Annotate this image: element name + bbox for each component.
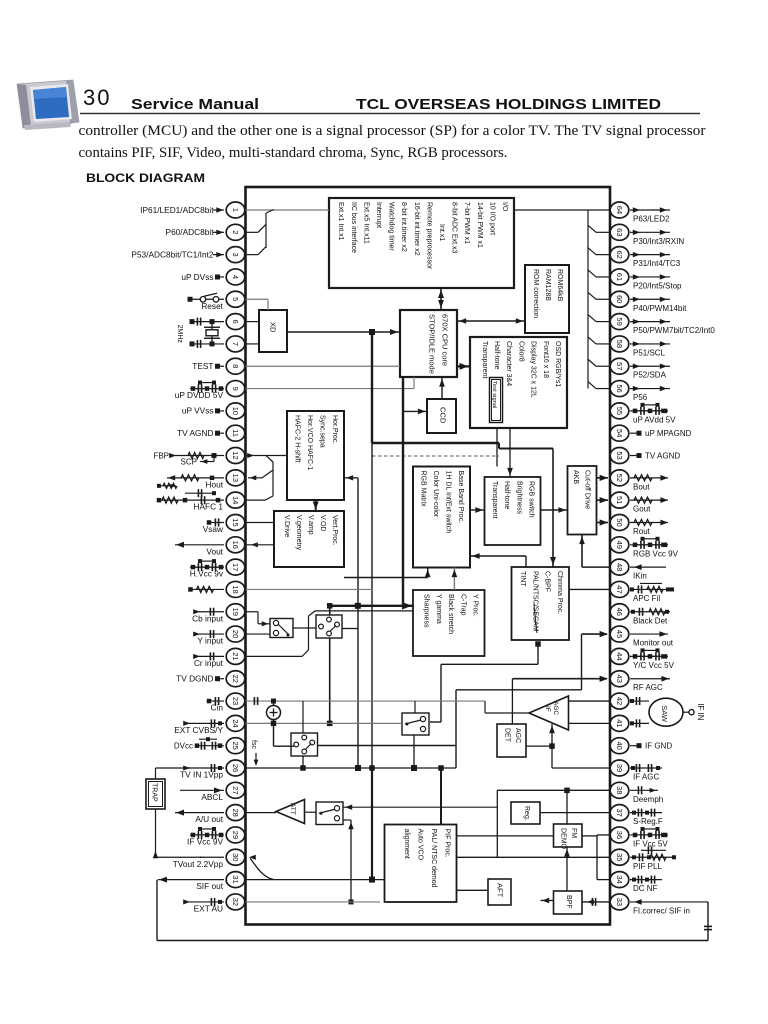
pin 46 external components	[630, 608, 670, 616]
svg-text:11: 11	[231, 429, 240, 437]
pin 21 circle	[226, 648, 245, 664]
amplifier IF AGC	[529, 696, 569, 730]
svg-text:IIC bus interface: IIC bus interface	[350, 202, 357, 253]
pin 9 circle	[226, 381, 245, 397]
pin 45 external components	[630, 631, 668, 637]
wire TRAP bottom	[153, 809, 202, 858]
svg-text:30: 30	[231, 853, 240, 861]
pin 31 circle	[226, 872, 245, 888]
pin 2 circle	[226, 224, 245, 240]
svg-text:Hor.VCO HAFC-1: Hor.VCO HAFC-1	[306, 415, 313, 470]
svg-text:P60/ADC8bit: P60/ADC8bit	[166, 227, 215, 237]
svg-text:DEMO: DEMO	[560, 828, 567, 850]
svg-text:Int.x1: Int.x1	[438, 224, 445, 241]
block Reg	[511, 802, 540, 824]
pin 43 external components	[630, 676, 670, 682]
svg-text:EXT AU: EXT AU	[194, 903, 223, 913]
wire AGC junction to pin39	[552, 746, 610, 768]
block OSD	[470, 337, 567, 428]
block Chroma Proc	[512, 567, 570, 640]
block U1 I/O and peripherals	[329, 198, 514, 288]
svg-text:TEST: TEST	[192, 361, 213, 371]
pin 3 circle	[226, 247, 245, 263]
pin 3 external components	[213, 252, 224, 257]
svg-text:SCP: SCP	[181, 458, 197, 467]
svg-text:46: 46	[615, 608, 624, 616]
pin 4 external components	[215, 274, 224, 279]
svg-text:7-bit PWM x1: 7-bit PWM x1	[463, 202, 470, 244]
pin 10 external components	[215, 408, 224, 413]
wire SW5 to pin32 line	[343, 820, 354, 904]
pin 56 circle	[610, 381, 629, 397]
pin 61 external components	[630, 274, 670, 279]
pin 34 external components	[630, 876, 662, 884]
pin 11 circle	[226, 425, 245, 441]
svg-text:17: 17	[231, 563, 240, 571]
wire SW5 input line	[343, 805, 497, 810]
pin 55 circle	[610, 403, 629, 419]
pin 9 external components	[190, 381, 224, 393]
svg-text:OSD RGB/Ys1: OSD RGB/Ys1	[554, 341, 561, 387]
svg-text:Vert.Proc.: Vert.Proc.	[331, 515, 338, 546]
wire CCD to CPU	[439, 377, 445, 399]
svg-text:Chroma Proc.: Chroma Proc.	[556, 571, 563, 614]
pin 35 external components	[630, 846, 676, 861]
pin 20 circle	[226, 626, 245, 642]
wire pin24 EXT CVBS	[246, 722, 403, 724]
svg-text:7: 7	[231, 342, 240, 346]
pin 14 external components	[157, 489, 224, 504]
svg-text:48: 48	[615, 563, 624, 571]
svg-text:FI.correc/ SIF in: FI.correc/ SIF in	[633, 906, 690, 915]
svg-text:V.Drive: V.Drive	[283, 515, 290, 537]
block Y Proc	[413, 590, 485, 656]
svg-text:Deemph: Deemph	[633, 795, 663, 804]
svg-text:670X CPU core: 670X CPU core	[441, 314, 450, 366]
svg-text:SAW: SAW	[660, 705, 669, 723]
wire PIF to FM demo	[457, 835, 554, 837]
svg-text:37: 37	[615, 808, 624, 816]
switch SW2 Y/C select	[316, 615, 342, 638]
svg-text:38: 38	[615, 786, 624, 794]
pin 23 external components	[207, 697, 224, 705]
wire left bus vertical	[266, 210, 274, 249]
wire pin48 IKin to AKB	[579, 535, 610, 568]
svg-text:Cin: Cin	[211, 703, 224, 713]
svg-text:uP DVDD 5V: uP DVDD 5V	[175, 390, 224, 400]
svg-text:AGC: AGC	[552, 701, 559, 715]
wire adder vertical	[271, 701, 277, 726]
TV icon	[17, 80, 79, 130]
svg-text:53: 53	[615, 451, 624, 459]
svg-text:FM: FM	[570, 828, 577, 838]
wire SW4 top tap	[414, 701, 416, 713]
wire XD to CPU	[287, 329, 400, 335]
pin 16 external components	[175, 542, 224, 548]
svg-text:EXT CVBS/Y: EXT CVBS/Y	[174, 725, 223, 735]
svg-text:63: 63	[615, 228, 624, 236]
pin 11 external components	[215, 431, 224, 436]
wire pin2 bus merge	[246, 224, 267, 232]
svg-text:24: 24	[231, 719, 240, 727]
pin 33 circle	[610, 894, 629, 910]
svg-text:uP AVdd 5V: uP AVdd 5V	[633, 415, 676, 424]
wire bus to chroma	[550, 449, 556, 568]
svg-text:P63/LED2: P63/LED2	[633, 215, 670, 224]
svg-text:FBP: FBP	[153, 452, 169, 461]
wire cutoff to pin 50	[597, 519, 609, 525]
svg-text:34: 34	[615, 875, 624, 883]
wire monitor out pin45	[582, 631, 609, 637]
svg-text:SIF out: SIF out	[196, 881, 223, 891]
pin 47 circle	[610, 581, 629, 597]
svg-text:8: 8	[231, 364, 240, 368]
svg-text:25: 25	[231, 742, 240, 750]
svg-text:10: 10	[231, 407, 240, 415]
pin 21 external components	[193, 652, 224, 660]
pin 45 circle	[610, 626, 629, 642]
svg-text:APC Fil: APC Fil	[633, 594, 660, 603]
pin 32 circle	[226, 894, 245, 910]
svg-text:35: 35	[615, 853, 624, 861]
wire ATT to SW5	[305, 811, 317, 813]
svg-text:RGB switch: RGB switch	[528, 481, 535, 518]
header rule	[80, 113, 700, 115]
pin 18 circle	[226, 581, 245, 597]
pin 35 circle	[610, 849, 629, 865]
block Vert Proc	[274, 511, 344, 567]
svg-text:Ext.x5 Int.x11: Ext.x5 Int.x11	[362, 202, 369, 244]
pin 28 circle	[226, 805, 245, 821]
svg-text:36: 36	[615, 831, 624, 839]
pin 20 external components	[193, 630, 224, 638]
pin 63 external components	[630, 230, 670, 235]
pin 58 circle	[610, 336, 629, 352]
pin 49 circle	[610, 537, 629, 553]
svg-text:AFT: AFT	[496, 883, 505, 898]
pin 30 circle	[226, 849, 245, 865]
svg-text:ROM64kB: ROM64kB	[556, 269, 563, 302]
svg-text:uP VVss: uP VVss	[182, 406, 214, 416]
svg-text:IF: IF	[544, 706, 551, 712]
pin 10 circle	[226, 403, 245, 419]
svg-text:XD: XD	[269, 322, 278, 333]
svg-text:Y/C Vcc 5V: Y/C Vcc 5V	[633, 661, 675, 670]
pin 33 external components	[630, 899, 708, 905]
svg-text:23: 23	[231, 697, 240, 705]
pin 31 external components	[158, 877, 224, 883]
wire chroma bottom to SW4	[430, 641, 541, 722]
wire pin1 to IO block	[246, 209, 330, 211]
wire YProc to BBP	[452, 568, 458, 591]
svg-text:V.OD: V.OD	[319, 515, 326, 531]
svg-text:I/O: I/O	[501, 202, 508, 212]
svg-text:4: 4	[231, 275, 240, 279]
svg-text:3: 3	[231, 253, 240, 257]
wire pin32 EXT AU line	[246, 901, 381, 903]
svg-text:HAFC-2 H-shift: HAFC-2 H-shift	[294, 415, 301, 463]
svg-text:P20/Int5/Stop: P20/Int5/Stop	[633, 281, 682, 290]
svg-text:PIF PLL: PIF PLL	[633, 862, 662, 871]
svg-text:PIF Proc.: PIF Proc.	[444, 829, 451, 858]
pin 42 circle	[610, 693, 629, 709]
pin 50 circle	[610, 514, 629, 530]
svg-text:H.Vcc 9v: H.Vcc 9v	[190, 569, 224, 579]
wire bus x372 lower	[371, 443, 373, 768]
svg-text:HAFC 1: HAFC 1	[193, 502, 223, 512]
svg-text:BLOCK DIAGRAM: BLOCK DIAGRAM	[86, 171, 205, 185]
svg-text:AKB: AKB	[572, 470, 579, 484]
svg-text:Font16 x 18: Font16 x 18	[542, 341, 549, 378]
pin 12 external components	[169, 453, 224, 464]
switch SW4 video select	[402, 713, 429, 735]
svg-text:TRAP: TRAP	[151, 783, 158, 802]
pin 17 circle	[226, 559, 245, 575]
wire AGC to IF amp	[526, 724, 555, 749]
svg-text:RGB Matrix: RGB Matrix	[420, 471, 427, 508]
svg-text:Cb input: Cb input	[192, 613, 224, 623]
wire adder to SW3	[274, 723, 295, 746]
wire SW2 up to bus	[327, 603, 333, 615]
pin 6 external components	[176, 318, 224, 348]
adder node	[267, 706, 281, 720]
svg-text:P53/ADC8bit/TC1/Int2: P53/ADC8bit/TC1/Int2	[131, 249, 213, 259]
wire right bus with diagonals	[588, 210, 610, 389]
pin 29 external components	[190, 827, 224, 839]
svg-text:DC NF: DC NF	[633, 884, 658, 893]
svg-text:P51/SCL: P51/SCL	[633, 348, 666, 357]
wire pin31 SIF line	[246, 877, 385, 883]
wire bus dashed	[372, 455, 499, 457]
wire CPU bus down	[402, 377, 413, 610]
wire reg to pin37	[540, 812, 610, 814]
wire pin19 Cb	[246, 612, 271, 627]
wire pin28 to ATT	[246, 812, 277, 814]
pin 26 external components	[183, 764, 224, 772]
svg-text:39: 39	[615, 764, 624, 772]
wire video to PIF	[440, 768, 442, 825]
svg-text:Vout: Vout	[206, 546, 223, 556]
wire deemph to FM	[566, 790, 568, 824]
pin 57 external components	[630, 364, 670, 369]
svg-text:27: 27	[231, 786, 240, 794]
svg-text:PAL/ NTSC demod: PAL/ NTSC demod	[430, 829, 437, 888]
wire TRAP top	[156, 768, 191, 779]
pin 25 circle	[226, 738, 245, 754]
wire pin21 Cr	[246, 611, 414, 657]
pin 50 external components	[630, 519, 668, 525]
svg-text:Color Uni-color: Color Uni-color	[432, 471, 439, 518]
pin 55 external components	[630, 403, 668, 415]
block PIF Proc	[385, 825, 457, 903]
svg-text:DET: DET	[504, 728, 511, 743]
svg-text:C-BPF: C-BPF	[544, 571, 551, 592]
wire pin14 to merge	[246, 499, 266, 501]
wire bus to CCD	[403, 409, 427, 415]
svg-text:IP61/LED1/ADC8bit: IP61/LED1/ADC8bit	[140, 205, 214, 215]
svg-text:12: 12	[231, 451, 240, 459]
pin 19 circle	[226, 604, 245, 620]
pin 36 circle	[610, 827, 629, 843]
block Cut-off Drive AKB	[568, 466, 597, 535]
svg-text:Watchdog timer: Watchdog timer	[388, 202, 395, 251]
svg-text:Auto VCO: Auto VCO	[417, 829, 424, 861]
svg-text:IF IN: IF IN	[696, 703, 705, 721]
svg-text:47: 47	[615, 585, 624, 593]
pin 37 external components	[630, 809, 662, 817]
wire BBP stub	[425, 568, 431, 578]
wire Vert right	[344, 577, 428, 579]
svg-text:Reset: Reset	[201, 301, 223, 311]
pin 60 circle	[610, 291, 629, 307]
pin 24 external components	[183, 719, 224, 727]
svg-text:IF GND: IF GND	[645, 741, 672, 750]
amplifier ATT	[276, 800, 305, 824]
pin 61 circle	[610, 269, 629, 285]
wire FM right elbow	[582, 835, 610, 880]
svg-text:9: 9	[231, 386, 240, 390]
svg-text:6: 6	[231, 320, 240, 324]
svg-text:ROM correction: ROM correction	[532, 269, 539, 318]
svg-text:54: 54	[615, 429, 624, 437]
svg-text:1: 1	[231, 208, 240, 212]
wire chroma to pin47 APC	[569, 588, 610, 590]
svg-text:2: 2	[231, 230, 240, 234]
svg-text:uP DVss: uP DVss	[181, 272, 213, 282]
svg-text:10 I/O port: 10 I/O port	[488, 202, 495, 235]
svg-text:RGB Vcc 9V: RGB Vcc 9V	[633, 549, 679, 558]
svg-text:TV AGND: TV AGND	[177, 428, 213, 438]
pin 44 circle	[610, 648, 629, 664]
wire IO to pin64	[514, 209, 610, 211]
svg-text:Monitor out: Monitor out	[633, 639, 674, 648]
pin 22 circle	[226, 671, 245, 687]
svg-text:8-bit ADC Ext.x3: 8-bit ADC Ext.x3	[451, 202, 458, 253]
pin 17 external components	[190, 559, 224, 571]
block Base Band Proc	[413, 467, 470, 568]
svg-text:P50/PWM7bit/TC2/Int0: P50/PWM7bit/TC2/Int0	[633, 326, 715, 335]
svg-text:P31/Int4/TC3: P31/Int4/TC3	[633, 259, 681, 268]
pin 22 external components	[215, 676, 224, 681]
wire pin26 TV IN	[246, 765, 457, 771]
svg-text:V.geometry: V.geometry	[295, 515, 302, 551]
pin 62 circle	[610, 247, 629, 263]
svg-text:AGC: AGC	[514, 728, 521, 743]
pin 51 external components	[630, 497, 668, 503]
svg-text:14-bit PWM x1: 14-bit PWM x1	[476, 202, 483, 248]
svg-text:49: 49	[615, 541, 624, 549]
svg-text:PAL/NTSC/SECAM: PAL/NTSC/SECAM	[531, 571, 538, 632]
pin 60 external components	[630, 297, 670, 302]
svg-text:59: 59	[615, 317, 624, 325]
svg-text:19: 19	[231, 608, 240, 616]
wire PIF to pin35	[457, 856, 611, 858]
svg-text:29: 29	[231, 831, 240, 839]
svg-text:44: 44	[615, 652, 624, 660]
IC chip outline	[246, 187, 611, 925]
pin 62 external components	[630, 252, 670, 257]
wire cutoff to pin 52	[597, 475, 609, 481]
wire monitor out path	[318, 634, 582, 768]
pin 16 circle	[226, 537, 245, 553]
svg-text:Black stretch: Black stretch	[447, 594, 454, 634]
pin 27 circle	[226, 782, 245, 798]
wire BBP to RGB switch	[470, 507, 485, 513]
svg-text:Hout: Hout	[205, 479, 223, 489]
pin 36 external components	[630, 827, 668, 839]
block CPU core	[400, 310, 457, 377]
svg-text:Service Manual: Service Manual	[131, 97, 259, 113]
svg-text:P56: P56	[633, 393, 648, 402]
block FM DEMO	[554, 824, 583, 847]
svg-text:C-Trap: C-Trap	[459, 594, 466, 616]
svg-text:Display 32C x 12L: Display 32C x 12L	[530, 341, 537, 398]
wire PIF to AFT	[457, 889, 489, 891]
svg-text:V.amp: V.amp	[307, 515, 314, 535]
wire OSD to BBP	[496, 428, 498, 467]
wire RGB switch to Cutoff	[541, 507, 568, 513]
svg-text:14: 14	[231, 496, 240, 504]
svg-text:alignment: alignment	[403, 829, 410, 859]
pin 54 external components	[630, 431, 642, 436]
svg-text:BPF: BPF	[565, 895, 572, 909]
pin 5 circle	[226, 291, 245, 307]
block ROM RAM	[525, 265, 569, 333]
pin 32 external components	[183, 898, 224, 906]
switch SW3 fsc select	[291, 733, 318, 756]
pin 8 circle	[226, 358, 245, 374]
svg-text:33: 33	[615, 898, 624, 906]
pin 49 external components	[630, 537, 668, 549]
pin 43 circle	[610, 671, 629, 687]
svg-text:A/U out: A/U out	[195, 814, 223, 824]
wire Hor to Vert	[313, 500, 319, 511]
svg-text:Half-tone: Half-tone	[493, 341, 500, 370]
svg-text:Y input: Y input	[197, 636, 223, 646]
svg-text:Brightness: Brightness	[515, 481, 522, 515]
svg-text:8-bit int.timer x2: 8-bit int.timer x2	[400, 202, 407, 252]
SAW filter	[630, 697, 694, 727]
svg-text:Y gamma: Y gamma	[435, 594, 442, 624]
wire pin30 curve	[249, 855, 274, 880]
pin 12 circle	[226, 448, 245, 464]
block BPF	[554, 891, 583, 914]
svg-text:P30/Int3/RXIN: P30/Int3/RXIN	[633, 237, 684, 246]
pin 39 external components	[630, 764, 662, 772]
block Hor Proc	[287, 411, 344, 500]
wire BPF left stub	[541, 898, 554, 903]
svg-text:Sync.sepa: Sync.sepa	[319, 415, 326, 448]
svg-text:S-Reg.F: S-Reg.F	[633, 817, 663, 826]
pin 38 circle	[610, 782, 629, 798]
wire BPF to pin33	[582, 898, 610, 906]
svg-text:Half-tone: Half-tone	[503, 481, 510, 510]
pin 54 circle	[610, 425, 629, 441]
svg-text:Vsaw: Vsaw	[203, 524, 224, 534]
svg-text:43: 43	[615, 675, 624, 683]
pin 34 circle	[610, 872, 629, 888]
svg-text:Transparent: Transparent	[481, 341, 488, 379]
svg-text:21: 21	[231, 652, 240, 660]
pin 59 circle	[610, 314, 629, 330]
svg-text:22: 22	[231, 675, 240, 683]
svg-text:15: 15	[231, 518, 240, 526]
wire SW2 right tap	[342, 628, 358, 630]
pin 64 circle	[610, 202, 629, 218]
svg-text:fsc: fsc	[250, 740, 257, 749]
wire bus to Y Proc horizontal	[330, 603, 403, 609]
wire pin9 to CPU	[246, 377, 415, 389]
